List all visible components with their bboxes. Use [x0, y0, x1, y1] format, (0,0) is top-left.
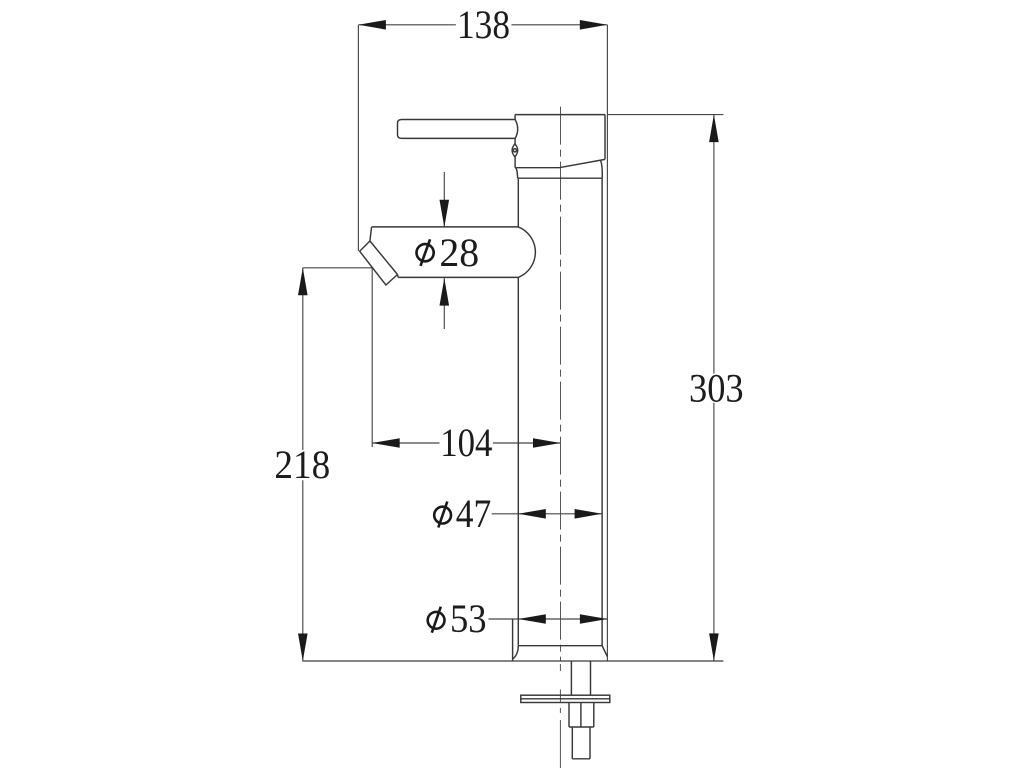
arrow phi28 top [440, 200, 450, 228]
centerline vertical axis [559, 107, 561, 768]
arrow 104 right [533, 438, 561, 448]
arrow 218 bottom [298, 634, 308, 662]
svg-text:138: 138 [457, 2, 510, 47]
nut facet line [580, 703, 582, 728]
arrow 303 bottom [709, 633, 719, 661]
svg-text:28: 28 [439, 230, 479, 275]
flange plate [521, 695, 610, 702]
aerator nozzle collar [360, 241, 398, 285]
cap bottom edge [515, 159, 605, 167]
neck left fillet [516, 168, 518, 179]
phi symbol of phi53 [428, 607, 445, 633]
arrow 218 top [298, 268, 308, 296]
dimension 104 left extension [371, 268, 373, 447]
svg-text:47: 47 [456, 491, 492, 536]
arrow phi47 left [518, 509, 546, 519]
dimension phi53 line [489, 618, 608, 620]
threaded rod left edge [571, 727, 573, 759]
phi symbol of phi28 [417, 239, 434, 266]
svg-text:53: 53 [450, 596, 487, 641]
arrow 138 right [580, 20, 608, 30]
nut left edge [568, 703, 570, 728]
nut bottom edge [569, 726, 594, 728]
dimension 303 top extension [608, 114, 723, 116]
threaded rod right edge [589, 727, 591, 759]
handle lever [398, 120, 516, 139]
phi symbol of phi47 [434, 502, 451, 528]
handle lever end cap arc [515, 120, 517, 139]
spout left chamfer small edge [370, 227, 372, 241]
dimension 138 left extension [357, 25, 359, 251]
dimension 303 line [713, 115, 715, 661]
cap right edge [604, 115, 606, 160]
skirt shelf edge [518, 645, 602, 647]
spout top edge [372, 226, 519, 228]
skirt left fillet [513, 646, 518, 659]
arrow phi53 right [580, 614, 608, 624]
tube right edge [601, 178, 603, 646]
skirt right chamfer [602, 646, 607, 657]
cap left edge [514, 115, 516, 168]
tube left edge [517, 178, 519, 646]
handle pivot pin center dot [513, 149, 516, 152]
arrow 104 left [372, 438, 400, 448]
dimension 218 top extension [303, 267, 373, 269]
arrow phi47 right [575, 509, 603, 519]
arrow 303 top [709, 115, 719, 143]
dimension phi28 line [443, 172, 445, 329]
arrow phi28 bottom [440, 278, 450, 306]
dimension phi47 line [492, 513, 602, 515]
baseline mounting surface [303, 660, 724, 662]
cap top edge [515, 114, 605, 116]
arrow 138 left [358, 20, 386, 30]
dimension 104 line [372, 442, 560, 444]
spout tip corner edge [397, 275, 400, 278]
spout cut face edge [370, 241, 398, 275]
shank left edge [570, 661, 572, 695]
nut right edge [593, 703, 595, 728]
dimension 138 line [358, 24, 607, 26]
tube top edge [518, 177, 602, 179]
spout right end arc [518, 227, 535, 278]
shank right edge [590, 661, 592, 695]
dimension 138 right extension and skirt right reference [606, 25, 608, 661]
skirt left outer edge [512, 619, 514, 661]
flange mid line [521, 698, 610, 700]
svg-text:218: 218 [274, 442, 330, 487]
arrow phi53 left [518, 614, 546, 624]
svg-text:303: 303 [689, 366, 744, 411]
dimension 218 line [302, 268, 304, 661]
spout bottom edge [398, 276, 518, 278]
svg-text:104: 104 [440, 420, 492, 465]
neck right fillet [600, 160, 602, 178]
threaded rod bottom edge [572, 758, 590, 760]
handle pivot pin [512, 144, 518, 157]
